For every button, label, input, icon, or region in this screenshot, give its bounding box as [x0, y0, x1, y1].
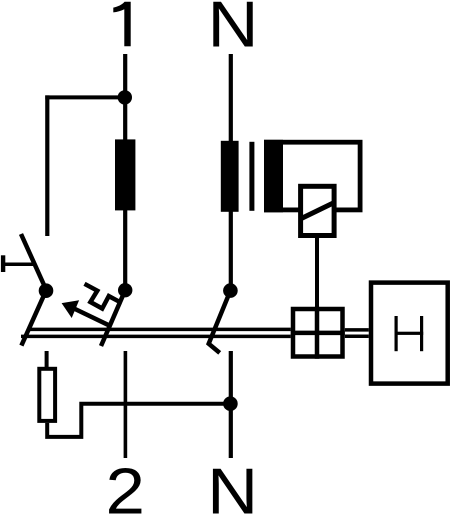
N line lower junction dot [223, 396, 238, 411]
wire: left pole vertical (fixed contact lead) [45, 95, 49, 236]
left pole contact blade (open, above pivot) [21, 234, 47, 291]
trip release staircase linkage [85, 284, 120, 309]
trip direction arrow shaft [74, 309, 110, 326]
N contact pivot dot [223, 283, 238, 298]
svg-text:2: 2 [106, 455, 146, 518]
left pole pivot dot [39, 283, 54, 298]
secondary winding black bar of relay box [264, 140, 283, 213]
node A junction dot on line 1 [118, 90, 132, 104]
wire: N line lower (to terminal N) [229, 351, 233, 458]
mechanical linkage bar upper line [27, 328, 291, 332]
line 1 contact pivot dot [118, 283, 132, 297]
mechanical linkage bar lower line [21, 335, 291, 339]
auxiliary module box H [371, 283, 448, 384]
trip direction arrow head [62, 300, 80, 318]
linkage to H box upper line [345, 328, 369, 332]
line 1 contact blade through linkage [101, 290, 125, 346]
wire: N line upper [229, 54, 233, 291]
current transformer primary bar on N line [221, 141, 239, 212]
coupling box (square with cross) [291, 307, 345, 359]
relay element square with diagonal [301, 186, 335, 235]
left pole lower blade through linkage [21, 291, 46, 346]
wire: line 1 lower (to terminal 2) [124, 351, 128, 458]
thermal overload release F1 (filled bar on line 1) [115, 139, 135, 210]
wire: line 1 upper (terminal 1 down to contact pivot) [123, 54, 127, 290]
manual actuator handle [1, 255, 33, 272]
wire: relay to trip coupling box [315, 238, 319, 308]
svg-text:N: N [208, 0, 259, 61]
test resistor R [39, 369, 55, 421]
test resistor branch upper stub [45, 351, 49, 368]
current transformer core bar [249, 142, 254, 211]
wire: horizontal branch from node A to left pole [45, 95, 125, 99]
relay box K1 outline [266, 142, 360, 210]
terminal label 1 [113, 2, 130, 47]
linkage to H box lower line [345, 334, 369, 338]
wire: test branch to N junction [47, 404, 230, 437]
svg-text:N: N [207, 455, 258, 518]
N contact blade with foot [209, 291, 231, 353]
